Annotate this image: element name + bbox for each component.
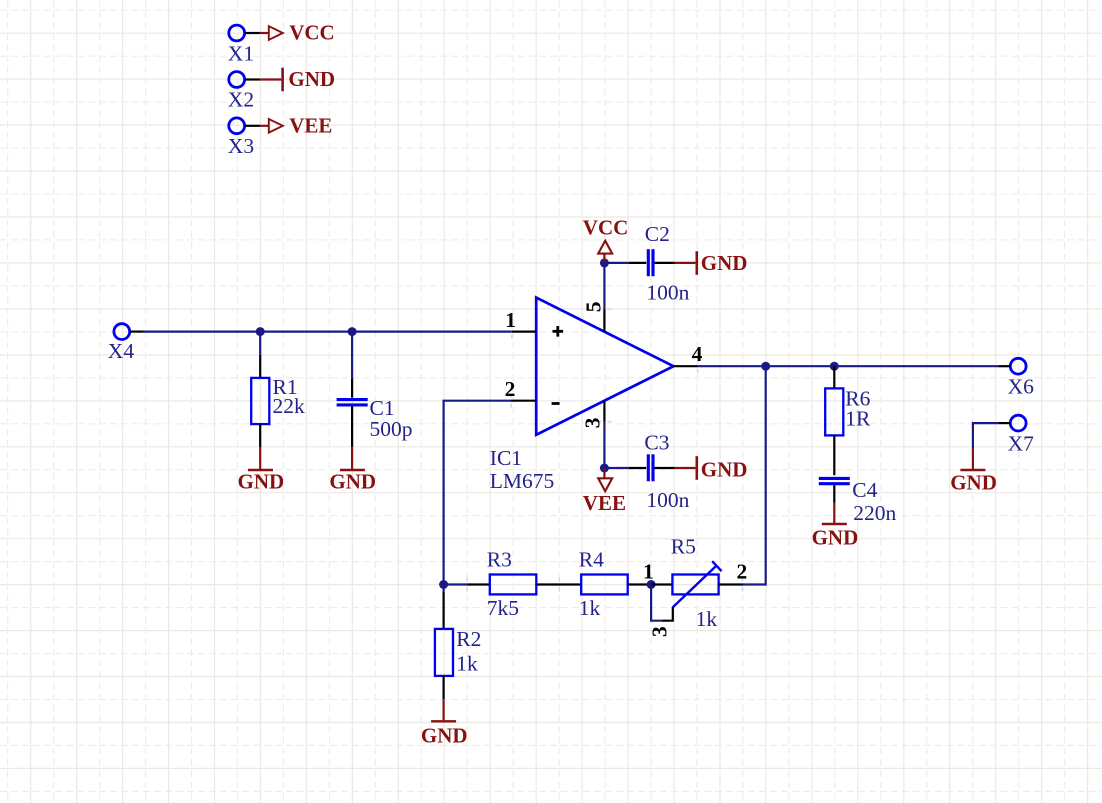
wire junction to C1 <box>351 332 353 398</box>
wire pin5 net to VCC junction <box>603 263 605 309</box>
wire output net pin4 to X6 <box>698 365 999 367</box>
capacitor C4 <box>819 478 897 525</box>
svg-text:3: 3 <box>648 626 672 637</box>
node junction VEE/C3 <box>600 464 609 473</box>
svg-text:C3: C3 <box>644 430 669 454</box>
svg-text:C4: C4 <box>852 478 877 502</box>
svg-text:GND: GND <box>950 470 997 494</box>
svg-text:C2: C2 <box>645 222 670 246</box>
node junction pot wiper <box>647 580 656 589</box>
pin 4 stub (output) <box>674 342 703 366</box>
resistor R3 <box>487 547 537 620</box>
supply VEE (op-amp) <box>583 468 626 515</box>
wire pin3 net to VEE junction <box>603 422 605 469</box>
connector X6 <box>998 358 1034 398</box>
svg-text:1: 1 <box>643 559 654 583</box>
ground GND (C1) <box>329 447 376 494</box>
ground GND (C2) <box>675 251 748 275</box>
resistor R1 <box>251 375 305 448</box>
node junction R6 <box>830 362 839 371</box>
potentiometer R5 <box>671 534 722 630</box>
op-amp IC1 <box>490 298 674 493</box>
svg-text:VCC: VCC <box>289 21 335 45</box>
supply VCC (op-amp) <box>583 215 629 263</box>
connector X7 <box>998 415 1034 456</box>
wire junction to R3 <box>444 583 490 585</box>
wire junction to C3 <box>604 467 646 469</box>
svg-text:R3: R3 <box>487 547 512 571</box>
svg-text:IC1: IC1 <box>490 446 522 470</box>
svg-text:VEE: VEE <box>583 491 626 515</box>
wire junction to R6 <box>833 366 835 388</box>
svg-text:1k: 1k <box>579 596 601 620</box>
connector X4 <box>108 324 144 363</box>
svg-text:GND: GND <box>329 470 376 494</box>
node junction C1 <box>348 327 357 336</box>
pin 2 stub (R5 right) <box>719 559 748 584</box>
svg-text:X4: X4 <box>108 339 135 363</box>
svg-text:1k: 1k <box>696 607 718 631</box>
ground GND (C3) <box>675 456 748 481</box>
svg-text:X2: X2 <box>228 87 254 111</box>
svg-text:7k5: 7k5 <box>487 596 519 620</box>
node junction feedback tap <box>761 362 770 371</box>
connector X1 <box>228 25 260 65</box>
wire R3 to R4 <box>536 583 581 585</box>
pin 2 stub (- input) <box>505 377 560 404</box>
pin 5 stub (V+) <box>582 302 606 332</box>
svg-text:100n: 100n <box>646 280 689 304</box>
wire junction to R1 <box>259 332 261 378</box>
ground GND (R2) <box>421 699 468 747</box>
svg-text:X1: X1 <box>228 42 254 66</box>
resistor R2 <box>435 627 481 699</box>
pin-end origin crosses <box>460 302 749 591</box>
svg-text:GND: GND <box>701 251 748 275</box>
capacitor C3 <box>644 430 689 512</box>
supply VEE (X3) <box>260 114 333 138</box>
svg-text:VCC: VCC <box>583 215 629 239</box>
node junction VCC/C2 <box>600 258 609 267</box>
wire junction to C2 <box>604 262 646 264</box>
svg-text:GND: GND <box>701 457 748 481</box>
svg-text:GND: GND <box>812 525 859 549</box>
svg-text:X3: X3 <box>228 134 254 158</box>
svg-text:LM675: LM675 <box>490 469 555 493</box>
ground GND (X7) <box>950 449 997 495</box>
supply GND (X2) <box>260 67 336 91</box>
svg-text:22k: 22k <box>273 394 306 418</box>
svg-text:2: 2 <box>505 377 516 401</box>
wire wiper to junction <box>651 585 662 621</box>
wire input net X4 to pin 1 <box>144 331 512 333</box>
svg-text:1k: 1k <box>456 651 478 675</box>
svg-text:GND: GND <box>421 724 468 748</box>
wire X7 to ground <box>973 423 999 449</box>
connector X2 <box>228 72 260 112</box>
svg-text:3: 3 <box>581 417 605 428</box>
svg-text:R5: R5 <box>671 534 696 558</box>
connector X3 <box>228 118 260 158</box>
ground GND (R1) <box>238 447 285 493</box>
node junction R1 <box>256 327 265 336</box>
svg-text:R4: R4 <box>579 547 604 571</box>
capacitor C1 <box>337 396 413 447</box>
pin 1 stub (+ input) <box>505 308 563 337</box>
svg-text:4: 4 <box>692 342 703 366</box>
svg-text:X6: X6 <box>1008 375 1035 399</box>
wire junction to pot pin 1 <box>651 583 672 585</box>
resistor R6 <box>825 386 871 475</box>
wire junction to R2 <box>443 585 445 629</box>
wire R4 to junction <box>628 583 651 585</box>
svg-text:VEE: VEE <box>289 114 332 138</box>
svg-text:5: 5 <box>582 302 606 313</box>
svg-text:1R: 1R <box>845 407 871 431</box>
pin 3 stub (V-) <box>581 401 605 429</box>
node junction R2/R3 <box>439 580 448 589</box>
capacitor C2 <box>645 222 690 304</box>
pin 3 stub (R5 wiper) <box>648 607 673 637</box>
svg-text:100n: 100n <box>646 488 689 512</box>
wire feedback net pin2 <box>444 401 511 585</box>
svg-text:GND: GND <box>238 470 285 494</box>
svg-text:500p: 500p <box>370 417 413 441</box>
svg-text:GND: GND <box>288 67 335 91</box>
svg-text:R2: R2 <box>456 627 481 651</box>
ground GND (C4) <box>812 503 859 550</box>
wire feedback drop to pot pin 2 <box>743 366 766 584</box>
svg-text:X7: X7 <box>1008 432 1035 456</box>
resistor R4 <box>579 547 628 620</box>
svg-text:2: 2 <box>737 559 748 583</box>
supply VCC (X1) <box>260 21 335 45</box>
svg-text:1: 1 <box>505 308 516 332</box>
svg-text:220n: 220n <box>853 501 896 525</box>
